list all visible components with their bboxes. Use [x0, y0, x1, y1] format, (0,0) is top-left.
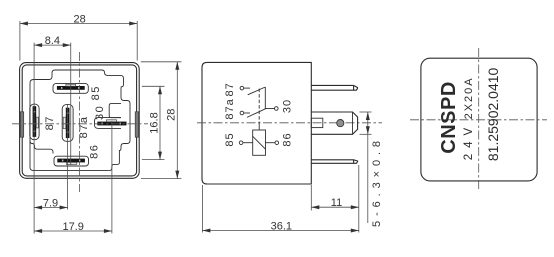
extension line pin87 center: [33, 43, 35, 234]
svg-text:CNSPD: CNSPD: [438, 81, 460, 154]
switch blade 2: [247, 108, 266, 117]
svg-text:11: 11: [331, 197, 342, 209]
svg-text:86: 86: [88, 144, 100, 159]
dim 11: [311, 197, 359, 209]
switch bus: [264, 87, 266, 109]
svg-text:7.9: 7.9: [43, 198, 58, 210]
svg-text:85: 85: [224, 132, 236, 146]
switch blade 1: [248, 87, 266, 95]
svg-text:87a: 87a: [224, 98, 236, 119]
extension line pin30 center: [111, 121, 113, 234]
horizontal centerline: [197, 122, 382, 124]
vertical centerline: [478, 48, 480, 191]
ext line blade tip: [358, 165, 360, 233]
actuator solid stub: [258, 123, 260, 130]
wire 85: [243, 142, 253, 144]
wire 87a: [244, 112, 250, 114]
terminal circle 30: [275, 107, 279, 111]
svg-text:2X20A: 2X20A: [463, 76, 475, 119]
recess around pin 86: [54, 156, 89, 166]
blade hole: [337, 120, 344, 127]
outer case inner line: [22, 65, 136, 176]
svg-text:8.4: 8.4: [45, 35, 60, 47]
pin 85 blade: [57, 84, 85, 90]
svg-text:87: 87: [44, 115, 56, 130]
left edge tab: [20, 112, 23, 137]
pocket outline label 30: [109, 104, 121, 118]
wire 30: [265, 108, 274, 110]
svg-text:5-6.3×0.8: 5-6.3×0.8: [371, 136, 383, 227]
svg-text:30: 30: [94, 105, 106, 120]
actuator dashed link: [258, 89, 260, 123]
wire 86: [266, 142, 276, 144]
svg-text:28: 28: [73, 14, 85, 26]
svg-text:24V: 24V: [463, 122, 475, 160]
inner left jog: [30, 141, 53, 154]
terminal circle 87: [240, 86, 244, 90]
dim 7.9: [34, 198, 68, 210]
inner recess bottom line: [30, 140, 109, 171]
svg-text:30: 30: [282, 99, 294, 113]
pin 87a blade: [63, 108, 69, 138]
svg-text:16.8: 16.8: [149, 112, 161, 133]
pin 87 blade: [33, 106, 39, 137]
pin 86 blade: [57, 159, 85, 165]
recess around pin 87: [30, 104, 39, 140]
dim 17.9: [34, 221, 112, 233]
svg-text:85: 85: [90, 85, 102, 100]
svg-text:28: 28: [165, 109, 177, 121]
pin 30 blade: [97, 120, 126, 126]
dim 28 top: [20, 14, 137, 61]
outer case square: [20, 63, 140, 179]
inner recess contour: [30, 70, 130, 171]
dim 16.8 right: [142, 86, 165, 159]
terminal circle 87a: [240, 111, 244, 115]
middle blade face view: [311, 112, 357, 134]
dim 28 right: [141, 62, 182, 179]
wire 87: [244, 87, 250, 89]
right edge tab: [135, 112, 138, 137]
middle blade tip line: [352, 112, 354, 134]
dim 8.4: [34, 35, 71, 47]
recess around pin 30: [95, 118, 122, 129]
ext line body right: [310, 185, 312, 211]
extension line pin87a center: [67, 104, 69, 210]
recess around pin 85: [53, 84, 88, 94]
terminal circle 86: [275, 141, 279, 145]
bottom blade side view: [311, 160, 357, 164]
svg-text:36.1: 36.1: [271, 220, 292, 232]
svg-text:17.9: 17.9: [62, 221, 83, 233]
svg-text:86: 86: [282, 132, 294, 146]
terminal circle 85: [239, 141, 243, 145]
base slot rect: [311, 118, 323, 127]
horizontal centerline: [12, 123, 148, 125]
recess around pin 87a: [62, 105, 73, 142]
coil box: [253, 130, 266, 155]
dim 5-6.3x0.8: [360, 112, 383, 227]
relay body: [202, 62, 311, 184]
svg-text:81.25902.0410: 81.25902.0410: [485, 67, 501, 161]
vertical centerline: [79, 52, 81, 192]
svg-text:87: 87: [224, 82, 236, 96]
coil diagonal: [253, 136, 266, 149]
top cover outline: [421, 58, 537, 181]
ext line body left: [201, 185, 203, 233]
extension line 8.4 right: [70, 43, 72, 165]
horizontal centerline: [410, 119, 547, 121]
top blade side view: [311, 85, 357, 90]
dim 36.1: [202, 220, 358, 232]
